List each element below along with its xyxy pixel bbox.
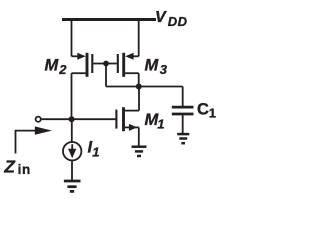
transistor M3 (PMOS) gate lead bbox=[106, 63, 117, 65]
Zin arrow bbox=[16, 131, 37, 154]
wire M3 source up to VDD bbox=[138, 20, 140, 57]
wire M1 source down to ground bbox=[138, 127, 140, 146]
svg-text:in: in bbox=[18, 162, 31, 177]
svg-text:Z: Z bbox=[3, 156, 16, 176]
svg-text:3: 3 bbox=[160, 62, 168, 77]
node input junction dot bbox=[69, 116, 75, 122]
ground under I1 bbox=[64, 180, 81, 183]
node drain junction dot bbox=[136, 84, 142, 90]
svg-text:C: C bbox=[197, 101, 209, 119]
wire input node down to I1 bbox=[71, 119, 73, 142]
wire M2 source stub from VDD bbox=[71, 20, 73, 57]
wire gate node down bbox=[105, 64, 107, 87]
VDD rail bbox=[62, 18, 156, 21]
transistor M2 source arrow bbox=[77, 53, 85, 60]
node gate dot of M2/M3 bbox=[103, 61, 109, 67]
transistor M2 channel bar bbox=[86, 53, 89, 77]
ground under M1 bbox=[132, 145, 147, 148]
transistor M1 gate bar bbox=[115, 110, 117, 129]
transistor M2 gate bar bbox=[91, 54, 93, 73]
transistor M3 source lead bbox=[132, 55, 139, 57]
wire M1 drain from junction bbox=[138, 87, 140, 111]
transistor M2 gate lead bbox=[93, 63, 106, 65]
wire input node to M1 gate lead bbox=[42, 118, 116, 120]
transistor M1 source lead bbox=[125, 126, 139, 128]
svg-text:1: 1 bbox=[92, 144, 99, 159]
transistor M1 channel bar bbox=[122, 107, 125, 131]
wire horizontal mirror node to C1 bbox=[106, 86, 183, 88]
svg-text:1: 1 bbox=[209, 105, 216, 120]
svg-text:DD: DD bbox=[168, 14, 188, 29]
transistor M1 source arrow bbox=[129, 124, 137, 131]
ground under C1 bbox=[177, 133, 189, 136]
wire M2 drain down to input node bbox=[71, 73, 73, 119]
svg-text:V: V bbox=[155, 9, 167, 26]
wire C1 to ground bbox=[182, 115, 184, 133]
transistor M3 channel bar bbox=[122, 53, 125, 77]
transistor M2 (PMOS) source lead bbox=[72, 55, 79, 57]
svg-text:M: M bbox=[145, 56, 160, 74]
capacitor C1 top plate bbox=[172, 106, 194, 109]
transistor M3 drain lead bbox=[125, 72, 139, 74]
input terminal open circle bbox=[36, 117, 41, 122]
svg-text:2: 2 bbox=[58, 62, 67, 77]
svg-text:M: M bbox=[45, 57, 60, 75]
wire M3 drain down bbox=[138, 73, 140, 86]
transistor M2 drain lead bbox=[72, 72, 86, 74]
transistor M3 source arrow bbox=[125, 53, 133, 60]
transistor M3 gate bar bbox=[117, 54, 119, 73]
wire down to C1 bbox=[182, 87, 184, 107]
transistor M1 (NMOS) drain lead bbox=[125, 110, 139, 112]
capacitor C1 bottom plate bbox=[172, 113, 194, 116]
current source I1 circle bbox=[63, 142, 81, 160]
wire I1 to ground bbox=[71, 160, 73, 180]
svg-text:1: 1 bbox=[157, 117, 164, 132]
current source I1 arrow bbox=[71, 144, 73, 150]
